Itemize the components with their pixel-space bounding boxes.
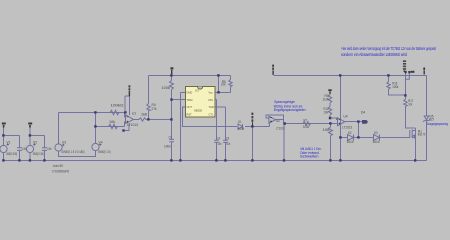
svg-text:100n: 100n: [22, 147, 27, 151]
svg-text:sondern ein Abwaertswandler LM: sondern ein Abwaertswandler LM2596S wird: [341, 52, 407, 57]
svg-text:V4: V4: [99, 140, 103, 144]
IC U3 NE555: [186, 87, 216, 118]
resistor R7 horizontal: [303, 122, 310, 126]
resistor R16 x388: [387, 82, 390, 90]
svg-text:SINE(0 5 50): SINE(0 5 50): [33, 152, 44, 156]
component label texts: [6, 80, 434, 168]
svg-text:V3: V3: [62, 140, 66, 144]
wire amp C output: [345, 122, 362, 138]
svg-text:SINE(0 1 5 0 0 180): SINE(0 1 5 0 0 180): [62, 150, 85, 154]
wire supply rail A top: [149, 75, 231, 77]
net flag divider top x330: [328, 89, 331, 94]
svg-text:BS170: BS170: [418, 133, 426, 137]
wire diode row y137: [341, 137, 410, 139]
svg-text:U1: U1: [132, 112, 136, 116]
svg-text:1N4148: 1N4148: [238, 127, 245, 131]
zener diode D4 x426: [423, 116, 430, 122]
wire VCC pin and R5 drop: [215, 76, 231, 93]
wire divider drop x330: [330, 124, 332, 161]
svg-text:Eingangsspannungsteiler: Eingangsspannungsteiler: [274, 108, 307, 112]
svg-text:OUT: OUT: [187, 105, 193, 109]
svg-text:110k: 110k: [323, 98, 330, 102]
svg-text:C4: C4: [217, 136, 220, 140]
wire output column x426: [426, 76, 428, 161]
wire amp A output: [134, 119, 172, 121]
svg-text:DIS: DIS: [209, 98, 214, 102]
svg-text:V1: V1: [6, 140, 10, 144]
svg-text:10k: 10k: [323, 128, 330, 132]
svg-text:10k: 10k: [221, 83, 226, 87]
diode D1 y126: [238, 124, 243, 129]
IC U3 texts and pin labels: [187, 89, 214, 117]
svg-text:C3: C3: [169, 135, 172, 139]
svg-text:U4: U4: [343, 115, 347, 119]
svg-text:Vcc: Vcc: [209, 91, 214, 95]
wire GND pin column x180: [181, 92, 186, 160]
LED indicator blob: [362, 120, 368, 124]
svg-text:100k: 100k: [303, 125, 309, 129]
wire M1 drain column x405: [406, 79, 416, 128]
svg-text:10n: 10n: [218, 142, 222, 146]
net flag V2 top: [28, 123, 32, 128]
wire supply rail B top: [274, 75, 427, 77]
net flag rail A x171: [170, 67, 173, 74]
svg-text:TRIG: TRIG: [187, 98, 193, 102]
svg-text:LT1013: LT1013: [276, 127, 285, 131]
resistor R8 x330: [329, 127, 333, 136]
svg-text:Ausgangsspannung: Ausgangsspannung: [427, 122, 448, 126]
wire divider chain x330: [330, 94, 338, 120]
resistor R4 x151: [147, 104, 150, 111]
svg-text:1k8: 1k8: [141, 112, 147, 116]
wire V1 to C1: [4, 136, 20, 161]
svg-text:R7: R7: [304, 118, 308, 122]
wire V3 column: [58, 113, 60, 152]
svg-text:100k: 100k: [162, 86, 171, 90]
svg-text:100k: 100k: [392, 85, 398, 89]
capacitor C1 plates: [17, 148, 22, 151]
svg-text:LT1013: LT1013: [342, 126, 352, 130]
resistor R6 output: [139, 118, 146, 121]
capacitor C4 plates x216: [214, 140, 219, 142]
svg-text:1N4148: 1N4148: [373, 140, 380, 144]
svg-text:LT1013: LT1013: [127, 123, 138, 127]
wire node B drop x252: [252, 127, 254, 161]
net flag rail B left x273: [272, 65, 274, 75]
wire V1 branch: [3, 125, 5, 161]
resistor R3 x171: [170, 81, 174, 90]
svg-text:1N4148: 1N4148: [347, 140, 354, 144]
voltage source V1: [0, 145, 7, 152]
voltage source V3: [55, 144, 62, 151]
svg-text:27k: 27k: [152, 107, 157, 111]
wire TRIG pin: [172, 99, 186, 101]
wire R16 drop x388: [389, 76, 406, 96]
voltage source V2: [26, 145, 33, 152]
svg-text:C5: C5: [226, 136, 229, 140]
wire M1 source: [414, 128, 416, 161]
net flag x412: [411, 71, 415, 73]
net flag stack x404 top: [403, 60, 406, 72]
wire input bottom y126: [96, 122, 126, 127]
svg-text:U3: U3: [195, 89, 199, 93]
op-amp input polarity marks: [127, 117, 341, 125]
net flag x426: [423, 68, 425, 75]
svg-text:V2: V2: [33, 140, 37, 144]
wire divider column x340: [339, 76, 341, 161]
resistor R1 input top: [110, 110, 119, 114]
svg-text:D1: D1: [238, 120, 241, 124]
svg-text:U2: U2: [276, 119, 280, 123]
wire amp B output: [276, 120, 338, 124]
capacitor C5 plates x225: [223, 140, 228, 142]
svg-text:100kΩ: 100kΩ: [111, 104, 125, 108]
wire OUT pin run y126: [183, 107, 270, 127]
wire U-link V3-V4: [59, 151, 96, 157]
svg-text:NE555: NE555: [194, 108, 202, 112]
capacitor C2 plates: [42, 148, 47, 151]
resistor R5 x229: [229, 80, 232, 87]
wire R4 column x151: [148, 76, 150, 120]
svg-text:C=1000000uF/5: C=1000000uF/5: [52, 169, 69, 173]
diode D3 y137: [374, 135, 380, 141]
svg-text:BZX: BZX: [430, 118, 435, 122]
nmos M1: [410, 130, 416, 139]
svg-text:10k: 10k: [408, 103, 412, 107]
net flag above amp A x128: [129, 85, 131, 96]
svg-text:CTL: CTL: [209, 113, 214, 117]
voltage source V4: [92, 143, 99, 150]
op-amp U2: [269, 116, 276, 123]
svg-text:D3: D3: [374, 131, 378, 135]
diode D2 y137: [348, 135, 354, 141]
wire V2 branch: [29, 125, 31, 161]
capacitor C3 plates x171: [169, 139, 174, 141]
series element rail dots: [405, 71, 411, 73]
wire V2 to C2: [30, 136, 45, 161]
resistor R2 input bottom: [109, 124, 118, 128]
svg-text:RST: RST: [187, 113, 193, 117]
svg-text:Hier wird dann weiter Versorgu: Hier wird dann weiter Versorgung mit der…: [342, 46, 437, 51]
svg-text:D2: D2: [348, 131, 352, 135]
svg-text:Schwellen: Schwellen: [300, 155, 319, 159]
wire V4 column: [95, 113, 97, 152]
net flag node B x252: [252, 113, 254, 127]
svg-text:100n: 100n: [164, 144, 171, 148]
svg-text:SINE(0 5 50): SINE(0 5 50): [6, 152, 17, 156]
svg-text:.tran 50: .tran 50: [53, 164, 64, 168]
svg-text:GND: GND: [187, 91, 193, 95]
plus marks on sources: [7, 143, 102, 146]
wire trigger column x171: [171, 76, 173, 161]
resistor R17 x405: [404, 99, 407, 107]
net flag V1 top: [2, 123, 6, 128]
svg-text:10k: 10k: [109, 120, 115, 124]
resistor R10 x330 lower: [328, 107, 331, 116]
wire amp B feedback loop: [266, 115, 284, 124]
svg-text:100n: 100n: [47, 147, 52, 151]
svg-text:SINE(0 1 5): SINE(0 1 5): [98, 150, 111, 154]
wire ground rail bottom: [3, 160, 427, 162]
series element on rail B: [406, 73, 410, 80]
wire input top y112: [59, 113, 126, 117]
resistor R9 x330 upper: [328, 95, 331, 104]
op-amp U1: [126, 115, 134, 124]
svg-text:THR: THR: [209, 105, 214, 109]
wire amp B output drop x284: [283, 124, 285, 161]
wire op-amp U1 supply: [124, 96, 130, 130]
wire DIS pin column x216: [215, 100, 217, 161]
op-amp U4: [338, 118, 345, 126]
svg-text:10k: 10k: [324, 111, 329, 115]
svg-text:10n: 10n: [226, 142, 230, 146]
wire THR pin column x225: [215, 107, 226, 161]
svg-text:D4: D4: [361, 110, 365, 114]
